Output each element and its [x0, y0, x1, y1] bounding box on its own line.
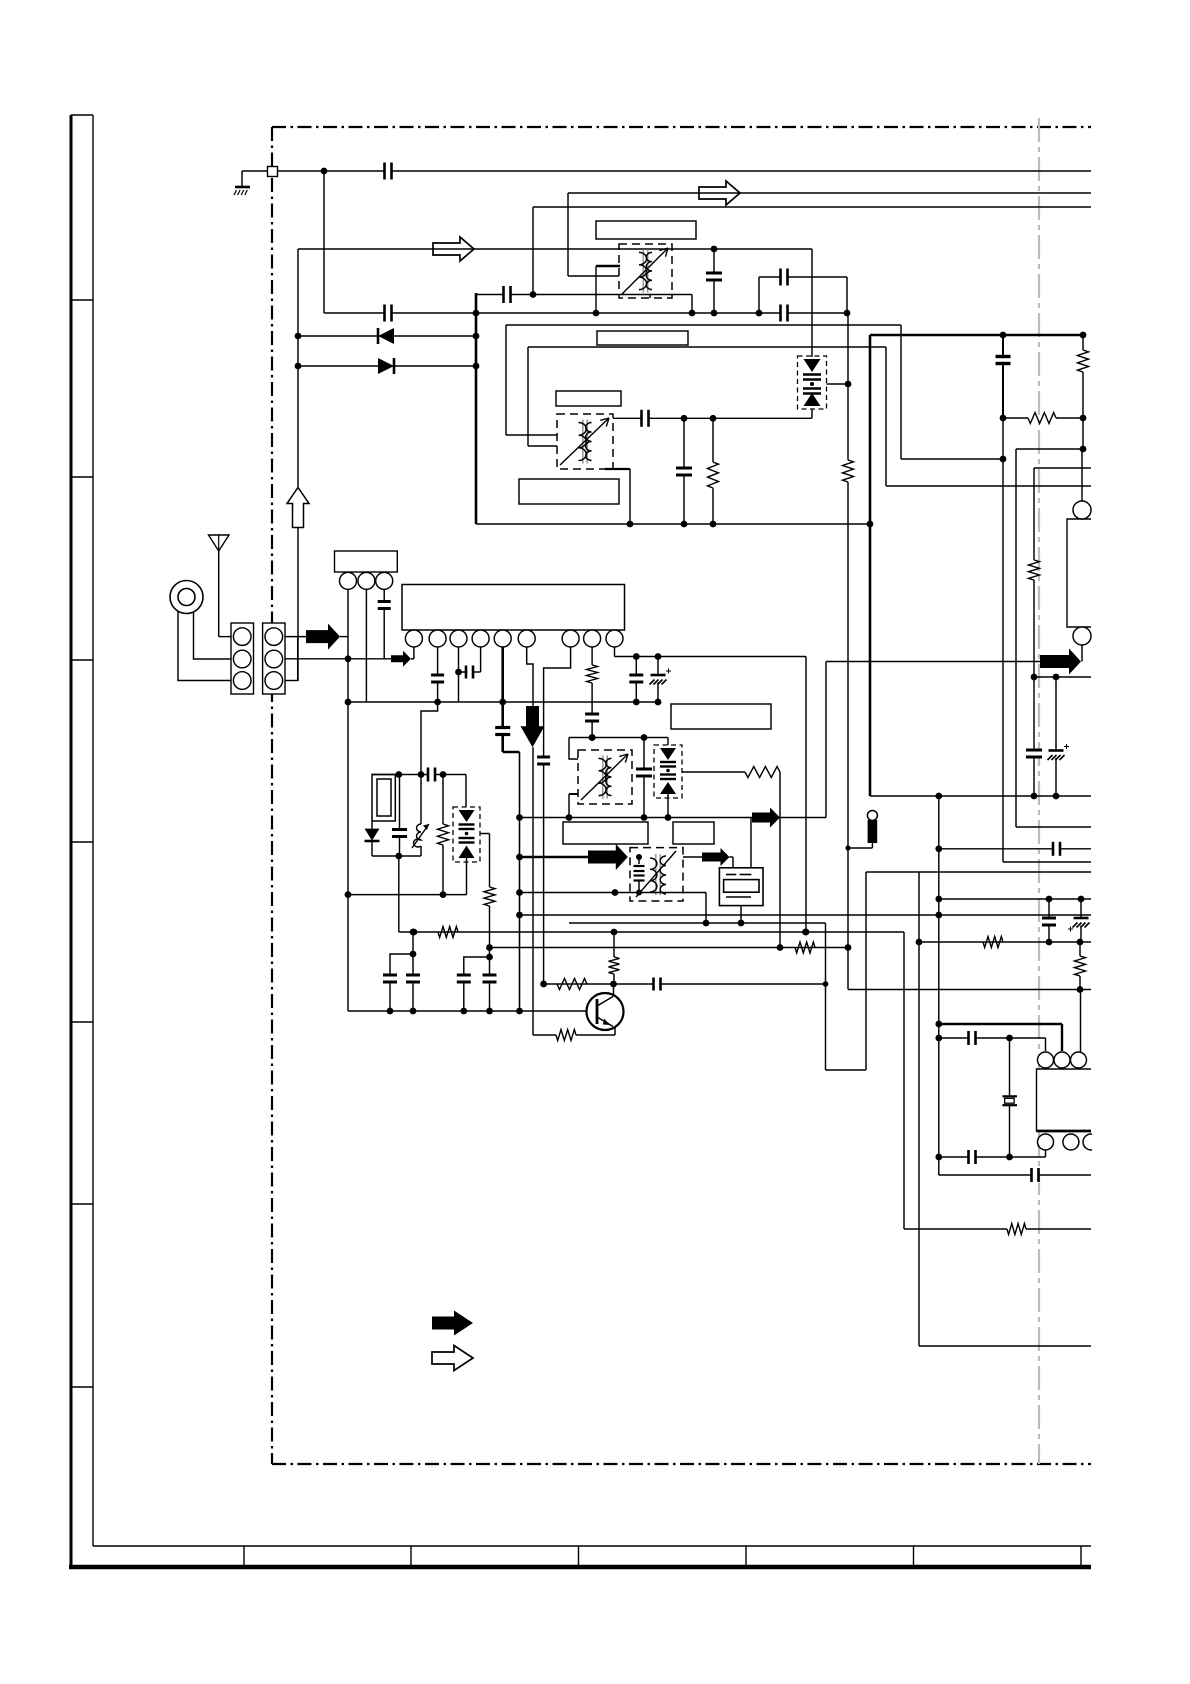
emitter resistor R13 y=1035 — [533, 1034, 556, 1036]
P2 pin2 wire y=659 — [285, 658, 391, 660]
capacitor C2 y=313 — [384, 304, 393, 323]
diode D3 — [371, 821, 373, 829]
black arrow into right IC pin — [1040, 649, 1081, 675]
varactor D4 mid lead — [480, 833, 490, 835]
connector P1 left — [231, 623, 254, 694]
wire y=418 T2 output — [613, 417, 812, 419]
wire x=519.5 down — [519, 752, 521, 1011]
wire y=774.5 tank top — [372, 774, 466, 776]
transformer T2 — [557, 414, 613, 469]
tank bottom wire — [372, 855, 421, 857]
resistor R4 x=1034 — [1029, 560, 1040, 580]
pin5 thick lead — [501, 647, 504, 702]
wire y=915 — [520, 914, 1092, 916]
transformer T1 — [619, 244, 672, 298]
capacitor C10 x=1034 — [1033, 677, 1035, 796]
wire y=737.5 — [569, 737, 668, 739]
P2 pin1 wire + black arrow — [285, 636, 306, 638]
capacitor C6 y=418 — [641, 409, 650, 428]
varactor D6 mid lead resistor R6 — [682, 771, 745, 773]
wire y=827 right — [1016, 826, 1091, 828]
pin7 lead — [544, 647, 571, 753]
shield box dash-dot border — [272, 126, 1091, 128]
wire y=677 — [1034, 676, 1091, 678]
wire y=486 right — [886, 485, 1091, 487]
connector P3 above IC1 — [335, 551, 398, 572]
resistor R15 x=1080 — [1075, 956, 1086, 976]
polar capacitor C29 x=1081 — [1080, 899, 1082, 942]
resistor R12 y=984 — [557, 979, 587, 990]
varactor D5 dual diode — [798, 356, 827, 409]
wire y=294.5 — [476, 294, 692, 296]
resistor R8 x=489.5 — [484, 887, 495, 906]
CF top lead — [750, 818, 752, 868]
black arrow into T3 — [588, 844, 628, 870]
connector P2 right — [263, 623, 285, 694]
wire y=524 ground return — [476, 523, 870, 525]
white arrow on y=249 — [433, 237, 474, 261]
bus x=848 corner to y=989.5 — [848, 989, 1091, 991]
crystal X1 — [1009, 1038, 1011, 1096]
wire left column x=298 — [297, 249, 299, 487]
pin9 lead — [614, 647, 616, 657]
capacitor C5 x=784 y=277 — [759, 276, 847, 278]
varactor D5 bottom lead — [811, 409, 813, 418]
wire y=848.8 right with capacitor C33 — [939, 848, 1091, 850]
T2 bottom stub — [605, 468, 630, 470]
diode D2 pointing right — [378, 358, 394, 374]
wire x=806 down — [805, 657, 807, 933]
T1 ground stub — [596, 265, 620, 267]
pin1 lead — [413, 647, 415, 659]
wire x=919 long down — [918, 872, 920, 1346]
wire y=366 — [298, 365, 476, 367]
capacitor C1 y=171 — [384, 162, 393, 181]
page scan clip right edge — [1092, 0, 1190, 1684]
diode D1 pointing left — [378, 328, 394, 344]
wire x=1083 to pin — [1082, 418, 1084, 449]
wire y=702 — [348, 701, 658, 703]
capacitor C14 y=672 — [459, 671, 481, 673]
ground — [235, 186, 250, 189]
thick wire y=857 to T3 — [520, 856, 589, 859]
thick node wire y=335 — [870, 334, 1083, 337]
bus x=476 — [475, 293, 478, 524]
IC right edge connector pins — [1081, 449, 1083, 501]
IC2 bottom pins — [1038, 1134, 1054, 1150]
resistor R1 x=713 — [712, 418, 714, 462]
wire x=825.5 — [825, 923, 827, 1070]
wire y=1157 with cap C31 — [939, 1156, 1046, 1158]
wire x=398.8 down — [398, 856, 400, 932]
wire y=899 — [939, 898, 1091, 900]
T1 bottom stub — [649, 295, 651, 299]
capacitor C28 x=1049 — [1048, 899, 1050, 942]
cap pair C25 C26 — [464, 957, 490, 974]
varactor D6 dual diode — [667, 738, 669, 746]
wire y=872 — [866, 871, 1091, 873]
jack J2 double circle — [170, 581, 203, 614]
wire y=207 — [533, 206, 1091, 208]
test point TP1 — [867, 811, 877, 821]
wire x=812 down from y=249 — [811, 249, 813, 357]
wire y=892.5 — [520, 892, 707, 894]
CF1 bottom lead — [740, 906, 742, 923]
resistor R14 y=942 — [983, 937, 1003, 948]
capacitor C4 x=714 — [713, 249, 715, 313]
resistor R2 x=1083 — [1082, 335, 1084, 350]
capacitor C9 x=1003 — [1002, 335, 1004, 418]
wire x=901 down — [900, 325, 902, 459]
wire y=932 — [399, 931, 904, 933]
wire x=1016 down — [1015, 449, 1017, 827]
wire x=1080 to IC2 pin — [1080, 990, 1082, 1054]
wire down from node A — [323, 171, 325, 313]
capacitor C20 x=644 — [643, 738, 645, 818]
wire y=193 — [568, 192, 1091, 194]
capacitor C3 y=294.5 — [503, 285, 512, 304]
wire y=1346 — [919, 1345, 1091, 1347]
wire y=325 loop — [506, 324, 901, 326]
wire y=313 bus — [324, 312, 848, 314]
white arrow on y=193 — [699, 181, 740, 205]
IC1 main IF IC — [402, 585, 625, 631]
resistor R3 y=418 — [1003, 417, 1028, 419]
connector J1 square — [268, 167, 278, 177]
polar capacitor C11 x=1056 — [1055, 677, 1057, 796]
resistor R7 x=443 — [442, 775, 444, 825]
wire x=1034 — [1033, 468, 1035, 560]
polar capacitor C19 x=658 — [657, 657, 659, 703]
T5 lower stub — [569, 793, 578, 795]
transformer T3 discriminator — [630, 848, 683, 901]
transformer T5 — [578, 750, 632, 804]
wire y=1038 with cap C30 — [939, 1037, 1046, 1039]
wire y=894.6 — [348, 894, 467, 896]
big black down arrow — [521, 706, 545, 747]
wire y=942 — [919, 941, 1091, 943]
capacitor C22 x=399.5 — [399, 775, 401, 857]
white arrow up x=298 — [287, 488, 309, 528]
varactor D5 mid lead to bus — [827, 383, 849, 385]
varactor D4 dual diode — [465, 775, 467, 808]
wire y=656.5 — [615, 656, 807, 658]
capacitor C18 x=636 — [635, 657, 637, 703]
page frame left ruler bar — [70, 115, 73, 1568]
wire y=862 — [1003, 861, 1091, 863]
wire y=1175 with cap C32 — [939, 1174, 1091, 1176]
wire x=533 down — [532, 747, 534, 1035]
node A junction — [321, 168, 328, 175]
label box for T1 — [596, 221, 696, 239]
wire x=938.8 long — [938, 796, 940, 1175]
wire x=348 down — [347, 659, 349, 895]
small black arrow y=659 — [391, 651, 411, 667]
capacitor C7 x=684 — [683, 418, 685, 524]
transistor Q1 — [587, 993, 624, 1030]
cap pair C23 C24 — [390, 954, 413, 974]
wire y=468 right — [1034, 467, 1091, 469]
wire y=817.5 — [520, 817, 827, 819]
resistor R10 y=932 — [438, 927, 458, 938]
label box below T2 — [519, 479, 619, 504]
label box y=822 right — [673, 822, 714, 844]
jack leads — [178, 611, 231, 681]
P3 pin leads — [347, 589, 349, 658]
wire x=1003 down — [1002, 418, 1004, 862]
capacitor C27 y=984 — [614, 983, 826, 985]
wire x=886 down — [885, 347, 887, 486]
resistor R11 x=614 — [609, 957, 620, 974]
board split gray dash-dot line — [1038, 118, 1040, 1464]
capacitor C16 x=543.6 — [536, 757, 551, 765]
IC2 top pins — [1038, 1052, 1054, 1068]
drop x=692 — [691, 295, 693, 314]
black arrow on y=817.5 — [752, 808, 780, 828]
wire x=568 down to T1 — [567, 193, 569, 276]
pin3 lead — [458, 647, 460, 672]
page frame bottom ruler — [93, 1545, 1091, 1547]
pin2 lead + capacitor C13 — [437, 647, 439, 702]
riser x=533 to top wire — [532, 207, 534, 295]
wire y=1229 resistor R16 — [904, 1228, 1007, 1230]
wire x=348 corner — [347, 895, 349, 1011]
wire y=336 — [298, 335, 476, 337]
wire y=449 — [1016, 448, 1083, 450]
Q1 collector riser — [613, 984, 615, 997]
thick bus x=870 — [869, 335, 872, 796]
label box for T2 — [556, 391, 621, 406]
resistor R9 y=947.5 — [795, 942, 815, 953]
wire y=459 from x=901 — [901, 458, 1003, 460]
wire y=347 loop — [528, 346, 886, 348]
wire x=826 up — [825, 662, 827, 818]
wire y=923 — [569, 922, 826, 924]
pin6 lead into big down arrow — [527, 647, 533, 706]
wire x=904 down — [903, 932, 905, 1229]
label box y=822 left — [563, 822, 648, 844]
wire y=1011 bottom bus — [348, 1010, 597, 1012]
pin5 chain cap C15 — [501, 702, 504, 752]
thick wire y=1024 to IC2 — [939, 1023, 1062, 1025]
label box y=704 — [671, 704, 771, 729]
IC2 box — [1037, 1069, 1092, 1131]
pin8 lead resistor R5 cap C17 — [591, 647, 593, 665]
coil can box-in-box — [372, 775, 395, 822]
legend white arrow — [432, 1346, 473, 1371]
base bias wire y=984 — [544, 983, 614, 985]
wire y=1070 — [826, 1069, 867, 1071]
ceramic filter CF1 — [719, 868, 763, 906]
wire y=249 AM in — [298, 248, 812, 250]
T3 out wire — [683, 856, 702, 858]
wire y=947.5 AGC — [490, 947, 849, 949]
wire to ground — [242, 170, 268, 172]
trimmer VC1 — [420, 775, 422, 825]
P2 pin3 wire — [285, 680, 298, 682]
pin4 lead — [480, 647, 482, 672]
riser to wire y=702 — [421, 702, 438, 775]
wire x=866 down — [865, 872, 867, 1070]
bus x=848 long — [847, 313, 849, 460]
wire top supply y=171 — [277, 170, 1091, 172]
capacitor C8 in y=313 at x=784 — [780, 304, 789, 323]
wire y=661.5 discriminator out — [826, 661, 1040, 663]
legend black arrow — [432, 1311, 473, 1336]
wire y=796 supply — [870, 795, 1091, 797]
IC1 bottom pins — [405, 630, 422, 647]
black arrow T3 to CF — [702, 848, 730, 866]
capacitor C12 x=384 — [377, 601, 392, 609]
label box above T2 — [597, 331, 688, 345]
capacitor C21 y=774.5 — [427, 767, 436, 783]
antenna — [209, 535, 230, 551]
